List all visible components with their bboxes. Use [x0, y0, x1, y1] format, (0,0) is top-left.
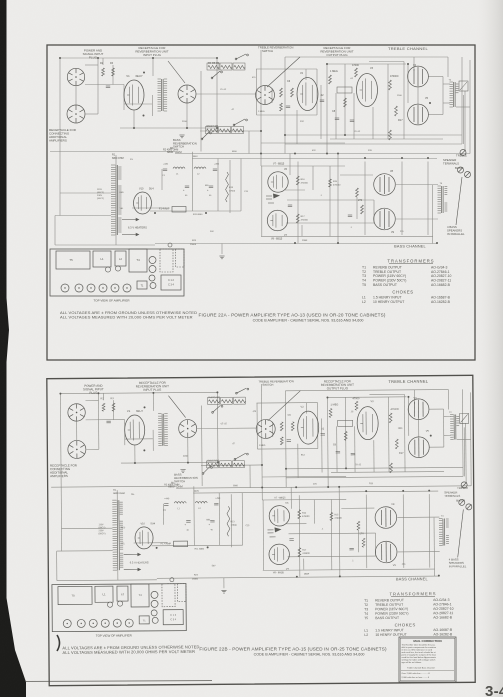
paper texture: [0, 0, 1, 1]
mail correction box: [399, 637, 456, 682]
figure 22B frame: [47, 375, 475, 685]
mail correction divider: [401, 670, 454, 672]
page edge line bottom left: [26, 681, 212, 682]
right margin shading: [474, 0, 503, 697]
figure 22A frame: [47, 45, 475, 360]
gutter crescent mark: [57, 635, 60, 651]
left gutter black strip: [0, 0, 26, 697]
schematic B content: [49, 378, 473, 655]
schematic A content: [49, 46, 471, 320]
